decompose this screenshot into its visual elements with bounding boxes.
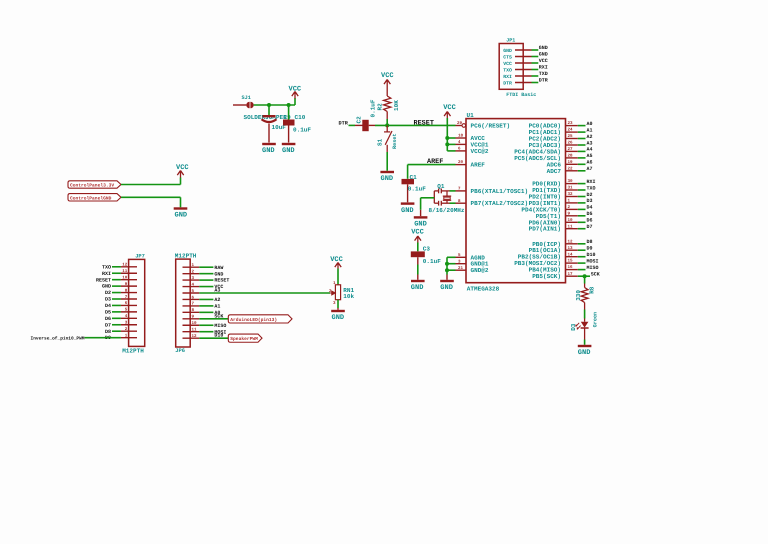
svg-text:12: 12 xyxy=(568,239,574,244)
svg-text:VCC: VCC xyxy=(381,72,394,80)
svg-text:A4: A4 xyxy=(587,147,593,153)
svg-text:26: 26 xyxy=(568,141,574,146)
svg-text:27: 27 xyxy=(568,147,574,152)
wire xyxy=(294,98,296,105)
svg-text:TXO: TXO xyxy=(102,264,111,270)
op IC U1 body xyxy=(466,119,566,283)
svg-text:TXD: TXD xyxy=(539,71,548,77)
pin 6 net A2 xyxy=(183,298,200,300)
pin 2 net D8 xyxy=(112,330,121,332)
svg-text:10: 10 xyxy=(122,275,128,280)
pin 7 net A1 xyxy=(183,305,200,307)
svg-text:ControlPanel3.3V: ControlPanel3.3V xyxy=(70,183,114,189)
svg-text:A0: A0 xyxy=(587,121,593,127)
net flag ControlPanelGND xyxy=(68,194,121,201)
svg-text:R8: R8 xyxy=(589,286,596,294)
svg-text:GND: GND xyxy=(102,284,111,290)
svg-text:D4: D4 xyxy=(105,303,111,309)
pin 12 PB0(ICP) net D8 xyxy=(566,243,578,245)
svg-text:17: 17 xyxy=(568,272,574,277)
svg-text:RXI: RXI xyxy=(102,271,111,277)
svg-text:29: 29 xyxy=(457,121,463,126)
wire xyxy=(375,124,456,126)
svg-text:GND: GND xyxy=(539,45,548,51)
svg-text:JP6: JP6 xyxy=(175,348,185,354)
svg-text:19: 19 xyxy=(568,160,574,165)
svg-text:GND: GND xyxy=(214,271,223,277)
svg-text:22: 22 xyxy=(568,166,574,171)
svg-text:GND: GND xyxy=(401,207,414,215)
svg-text:DTR: DTR xyxy=(339,121,349,127)
svg-text:12: 12 xyxy=(192,334,198,339)
pin 1 net D9 xyxy=(121,337,137,339)
svg-text:A5: A5 xyxy=(587,153,593,159)
svg-text:GND: GND xyxy=(578,349,591,357)
pin 4 VCC@1 xyxy=(456,143,467,145)
pin 7 net D3 xyxy=(112,298,121,300)
pin 4 net D6 xyxy=(112,317,121,319)
svg-text:A3: A3 xyxy=(587,140,593,146)
svg-text:DTR: DTR xyxy=(503,80,512,86)
node junction xyxy=(445,268,449,272)
svg-text:23: 23 xyxy=(568,121,574,126)
svg-text:PB6(XTAL1/TOSC1): PB6(XTAL1/TOSC1) xyxy=(471,188,529,195)
pin 1 PD3(INT1) net D3 xyxy=(566,202,578,204)
svg-text:D9: D9 xyxy=(587,246,593,252)
svg-text:GND: GND xyxy=(332,314,345,322)
svg-text:ATMEGA328: ATMEGA328 xyxy=(467,285,500,292)
pin 29 PC6/RESET xyxy=(456,125,462,127)
pin 8 PB7(XTAL2/TOSC2) xyxy=(456,202,467,204)
wire xyxy=(349,124,356,126)
svg-text:12: 12 xyxy=(122,263,128,268)
svg-text:GND: GND xyxy=(440,284,453,292)
pin 18 AVCC xyxy=(456,137,467,139)
svg-text:10: 10 xyxy=(192,321,198,326)
svg-text:SpeakerPWM: SpeakerPWM xyxy=(230,336,258,342)
net flag ArduinoLED(pin13) xyxy=(228,315,292,323)
node junction xyxy=(287,103,291,107)
svg-text:Green: Green xyxy=(592,312,598,328)
svg-text:R2: R2 xyxy=(377,103,384,111)
LED D3 Green xyxy=(584,319,586,322)
svg-text:18: 18 xyxy=(458,134,464,139)
pin 9 net SCK xyxy=(183,318,200,320)
ground xyxy=(414,216,428,218)
svg-text:RAW: RAW xyxy=(214,265,223,271)
pin 30 PD0(RXD) net RXI xyxy=(566,183,578,185)
connector JP1 FTDI Basic xyxy=(499,44,523,90)
svg-text:0.1uF: 0.1uF xyxy=(293,127,311,134)
svg-text:D3: D3 xyxy=(587,198,593,204)
svg-text:D2: D2 xyxy=(105,290,111,296)
pin 8 net A0 xyxy=(183,311,200,313)
svg-text:TXO: TXO xyxy=(503,67,512,73)
svg-text:11: 11 xyxy=(192,328,198,333)
svg-text:GND: GND xyxy=(539,52,548,58)
svg-text:20: 20 xyxy=(458,160,464,165)
pin 11 net MOSI xyxy=(183,331,200,333)
svg-text:MOSI: MOSI xyxy=(587,258,599,264)
wire xyxy=(408,164,456,166)
svg-text:30: 30 xyxy=(568,179,574,184)
svg-text:VCC: VCC xyxy=(503,61,512,67)
ground xyxy=(401,202,415,204)
pin 9 PD5(T1) net D5 xyxy=(566,215,578,217)
svg-text:D4: D4 xyxy=(587,205,593,211)
svg-text:21: 21 xyxy=(458,266,464,271)
wire xyxy=(121,184,181,186)
svg-text:D6: D6 xyxy=(587,218,593,224)
wire xyxy=(337,269,339,285)
svg-text:ArduinoLED(pin13): ArduinoLED(pin13) xyxy=(230,317,277,323)
svg-text:GND: GND xyxy=(411,284,424,292)
pin 6 VCC@2 xyxy=(456,150,467,152)
pin 27 PC4(ADC4/SDA) net A4 xyxy=(566,150,578,152)
svg-text:MISO: MISO xyxy=(587,265,599,271)
svg-text:CTS: CTS xyxy=(503,54,512,60)
svg-text:A2: A2 xyxy=(214,297,220,303)
net flag ControlPanel3.3V xyxy=(68,181,121,188)
svg-text:U1: U1 xyxy=(467,112,475,119)
svg-text:SCK: SCK xyxy=(214,313,223,319)
pin 3 net RESET xyxy=(183,279,200,281)
wire xyxy=(386,152,388,171)
svg-text:D10: D10 xyxy=(587,252,596,258)
wire xyxy=(446,118,448,151)
svg-text:RESET: RESET xyxy=(214,278,229,284)
pin 12 net TXO xyxy=(112,266,121,268)
svg-text:A3: A3 xyxy=(214,288,220,294)
wire xyxy=(584,340,586,345)
ground xyxy=(578,345,592,347)
ground xyxy=(446,275,448,280)
svg-text:A7: A7 xyxy=(587,166,593,172)
ground xyxy=(411,280,425,282)
ground xyxy=(380,171,394,173)
svg-text:JP7: JP7 xyxy=(135,254,145,260)
svg-text:TXO: TXO xyxy=(587,185,596,191)
svg-text:16: 16 xyxy=(568,265,574,270)
svg-text:A1: A1 xyxy=(214,304,220,310)
svg-text:M12PTH: M12PTH xyxy=(122,347,144,354)
svg-text:FTDI Basic: FTDI Basic xyxy=(506,92,536,98)
wire xyxy=(584,310,586,319)
node junction xyxy=(385,123,389,127)
pin 31 PD1(TXD) net TXO xyxy=(566,189,578,191)
svg-text:28: 28 xyxy=(568,154,574,159)
svg-text:Reset: Reset xyxy=(392,133,398,149)
pin 12 net D10 xyxy=(183,337,200,339)
svg-text:A6: A6 xyxy=(587,160,593,166)
svg-text:D10: D10 xyxy=(214,333,223,339)
node junction xyxy=(445,142,449,146)
svg-text:VCC: VCC xyxy=(411,228,424,236)
svg-text:PC6(/RESET): PC6(/RESET) xyxy=(471,123,511,130)
pin 3 GND@1 xyxy=(456,263,467,265)
capacitor C3 0.1uF xyxy=(417,243,419,252)
pin 13 PB1(OC1A) net D9 xyxy=(566,249,578,251)
svg-text:C10: C10 xyxy=(295,114,306,121)
pin 5 net D5 xyxy=(112,311,121,313)
svg-text:D7: D7 xyxy=(105,322,111,328)
pin 5 net A3 xyxy=(183,292,200,294)
pin 4 net VCC xyxy=(183,286,200,288)
pin 14 PB2(SS/OC1B) net D10 xyxy=(566,256,578,258)
svg-text:SJ1: SJ1 xyxy=(242,95,251,101)
pin 7 PB6(XTAL1/TOSC1) xyxy=(456,190,467,192)
svg-text:DTR: DTR xyxy=(539,78,548,84)
node junction xyxy=(445,262,449,266)
svg-text:VCC@2: VCC@2 xyxy=(471,148,489,155)
svg-text:C2: C2 xyxy=(356,116,363,124)
svg-text:ADC7: ADC7 xyxy=(547,168,562,175)
capacitor C9 10uF xyxy=(268,105,270,115)
svg-text:GND@2: GND@2 xyxy=(471,267,489,274)
svg-text:24: 24 xyxy=(568,128,574,133)
pin 10 net RESET xyxy=(112,279,121,281)
svg-text:VCC: VCC xyxy=(443,104,456,112)
svg-text:0.1uF: 0.1uF xyxy=(408,185,426,192)
wire xyxy=(447,256,456,258)
switch S1 Reset xyxy=(386,125,388,131)
svg-text:0.1uF: 0.1uF xyxy=(423,258,441,265)
svg-text:0.1uF: 0.1uF xyxy=(370,99,377,117)
pin 19 ADC6 net A6 xyxy=(566,163,578,165)
node junction xyxy=(583,274,587,278)
svg-text:15: 15 xyxy=(568,259,574,264)
svg-text:RXI: RXI xyxy=(503,74,512,80)
svg-text:11: 11 xyxy=(122,269,128,274)
pin 32 PD2(INT0) net D2 xyxy=(566,196,578,198)
net flag SpeakerPWM xyxy=(228,334,262,342)
pin 16 PB4(MISO) net MISO xyxy=(566,269,578,271)
svg-text:GND: GND xyxy=(503,48,512,54)
pin 9 net GND xyxy=(112,285,121,287)
node junction xyxy=(445,136,449,140)
svg-text:RESET: RESET xyxy=(414,119,434,127)
svg-text:AREF: AREF xyxy=(471,162,486,169)
svg-text:32: 32 xyxy=(568,192,574,197)
svg-text:RXI: RXI xyxy=(587,179,596,185)
svg-text:14: 14 xyxy=(568,252,574,257)
svg-text:13: 13 xyxy=(568,246,574,251)
svg-text:GND: GND xyxy=(175,212,188,220)
pin 10 net MISO xyxy=(183,324,200,326)
pin 11 PD7(AIN1) net D7 xyxy=(566,228,578,230)
pin 15 PB3(MOSI/OC2) net MOSI xyxy=(566,262,578,264)
svg-text:D5: D5 xyxy=(587,211,593,217)
svg-text:M12PTH: M12PTH xyxy=(175,252,197,259)
wire xyxy=(85,337,121,339)
capacitor C2 0.1uF xyxy=(355,124,363,126)
svg-text:SCK: SCK xyxy=(591,271,600,277)
pin 24 PC1(ADC1) net A1 xyxy=(566,131,578,133)
pin 3 net D7 xyxy=(112,324,121,326)
pin 2 net GND xyxy=(183,273,200,275)
pin 26 PC3(ADC3) net A3 xyxy=(566,144,578,146)
wire xyxy=(121,196,181,198)
svg-text:VCC: VCC xyxy=(539,58,548,64)
svg-text:PD7(AIN1): PD7(AIN1) xyxy=(529,226,561,233)
svg-text:25: 25 xyxy=(568,134,574,139)
svg-text:D3: D3 xyxy=(570,323,577,331)
svg-text:31: 31 xyxy=(568,186,574,191)
svg-text:10K: 10K xyxy=(393,100,400,111)
pin 1 net RAW xyxy=(183,266,200,268)
svg-text:GND: GND xyxy=(381,175,394,183)
svg-text:D7: D7 xyxy=(587,224,593,230)
connector JP6 M12PTH xyxy=(176,259,191,347)
pin 5 AGND xyxy=(456,256,467,258)
svg-text:MISO: MISO xyxy=(214,323,226,329)
svg-text:D8: D8 xyxy=(105,329,111,335)
svg-text:RXI: RXI xyxy=(539,65,548,71)
svg-text:ControlPanelGND: ControlPanelGND xyxy=(70,195,112,201)
svg-text:VCC: VCC xyxy=(176,164,189,172)
pin 22 ADC7 net A7 xyxy=(566,170,578,172)
svg-text:A1: A1 xyxy=(587,127,593,133)
svg-text:D8: D8 xyxy=(587,239,593,245)
svg-text:RESET: RESET xyxy=(96,277,111,283)
svg-text:330: 330 xyxy=(575,290,582,301)
ground xyxy=(174,207,188,209)
svg-text:11: 11 xyxy=(568,224,574,229)
pin 17 PB5(SCK) net SCK xyxy=(566,275,578,277)
pin 2 PD4(XCK/T0) net D4 xyxy=(566,208,578,210)
wire xyxy=(584,276,586,283)
svg-text:D3: D3 xyxy=(105,297,111,303)
pin 25 PC2(ADC2) net A2 xyxy=(566,138,578,140)
pin 10 PD6(AIN0) net D6 xyxy=(566,221,578,223)
svg-text:8/16/20MHz: 8/16/20MHz xyxy=(429,207,465,214)
svg-text:S1: S1 xyxy=(377,138,384,146)
wire xyxy=(254,104,295,106)
ground xyxy=(282,143,296,145)
wire xyxy=(337,300,339,308)
svg-text:JP1: JP1 xyxy=(506,38,515,44)
svg-text:D5: D5 xyxy=(105,309,111,315)
pin 11 net RXI xyxy=(112,272,121,274)
svg-text:GND: GND xyxy=(414,221,427,229)
svg-text:GND: GND xyxy=(282,147,295,155)
svg-text:Inverse_of_pin10_PWM: Inverse_of_pin10_PWM xyxy=(31,335,85,341)
svg-text:A2: A2 xyxy=(587,134,593,140)
connector JP7 M12PTH xyxy=(129,259,145,346)
svg-text:D6: D6 xyxy=(105,316,111,322)
pin 8 net D2 xyxy=(112,292,121,294)
pin 21 GND@2 xyxy=(456,269,467,271)
ground xyxy=(331,310,345,312)
ground xyxy=(262,143,276,145)
pin 23 PC0(ADC0) net A0 xyxy=(566,125,578,127)
svg-text:PB7(XTAL2/TOSC2): PB7(XTAL2/TOSC2) xyxy=(471,200,529,207)
resistor R8 330 xyxy=(584,284,586,288)
pin 28 PC5(ADC5/SCL) net A5 xyxy=(566,157,578,159)
svg-text:10: 10 xyxy=(568,218,574,223)
svg-text:10k: 10k xyxy=(343,293,354,300)
pin 6 net D4 xyxy=(112,304,121,306)
svg-text:D2: D2 xyxy=(587,192,593,198)
capacitor C10 0.1uF xyxy=(288,105,290,120)
node junction xyxy=(267,103,271,107)
svg-text:PB5(SCK): PB5(SCK) xyxy=(532,273,561,280)
svg-text:GND: GND xyxy=(262,147,275,155)
svg-text:VCC: VCC xyxy=(330,256,343,264)
pin 20 AREF xyxy=(456,164,467,166)
